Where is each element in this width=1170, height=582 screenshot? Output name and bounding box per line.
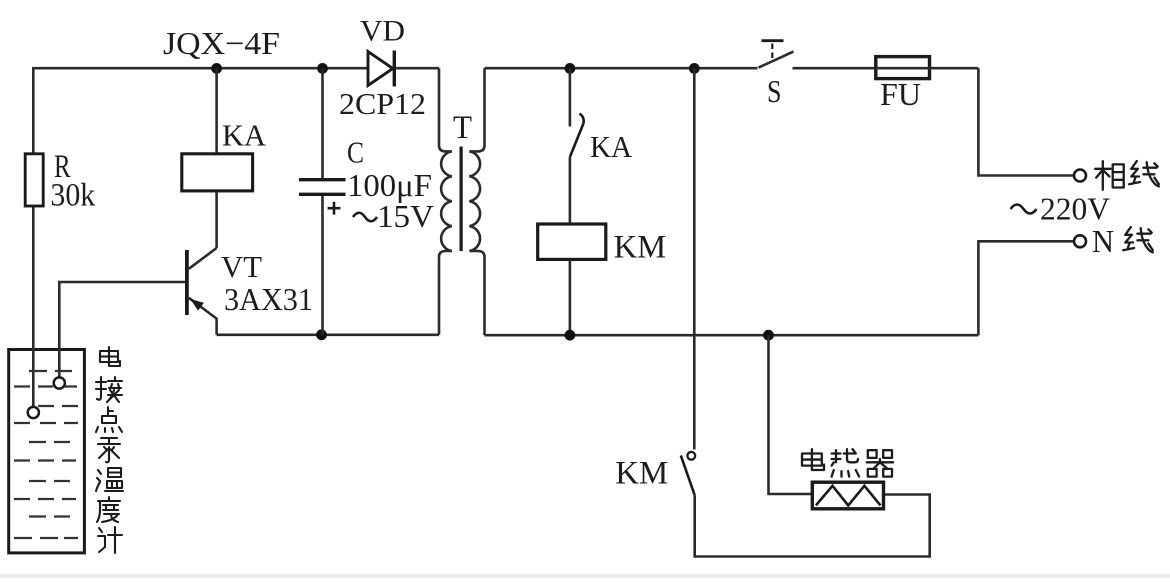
label ~220V (1011, 191, 1111, 227)
svg-text:220V: 220V (1040, 191, 1110, 227)
svg-text:VD: VD (360, 15, 405, 48)
junction dot KM switch branch top (689, 63, 700, 74)
label 相线 (1095, 161, 1159, 190)
svg-text:30k: 30k (50, 178, 95, 214)
contact KM (contactor main contact) (615, 68, 929, 556)
label N线 (1092, 223, 1153, 259)
switch S (759, 41, 877, 109)
label 电热器 (802, 449, 893, 477)
contact KA (relay contact) (570, 68, 633, 224)
contactor coil KM (538, 224, 666, 335)
resistor R 30k (25, 149, 95, 214)
terminal N线 (neutral) (1074, 235, 1086, 247)
svg-text:S: S (767, 73, 782, 109)
wire: base wire from thermometer electrode to transistor (59, 282, 185, 383)
transformer T (439, 68, 485, 335)
label 电接点汞温度计 (vertical) (96, 347, 123, 553)
label JQX-4F (163, 25, 280, 61)
junction dot at relay branch (211, 63, 222, 74)
wire: secondary top rail (485, 67, 758, 70)
wire: secondary bottom rail (485, 334, 979, 337)
svg-text:KM: KM (614, 230, 667, 266)
thermometer body (电接点汞温度计) (9, 350, 85, 553)
junction dot capacitor top (317, 63, 328, 74)
svg-text:KA: KA (590, 129, 633, 164)
svg-text:15V: 15V (377, 198, 434, 234)
thermometer internals: dashed liquid lines (14, 371, 78, 538)
electrode circle lower (left) (28, 407, 39, 418)
svg-text:VT: VT (221, 249, 262, 284)
svg-text:3AX31: 3AX31 (224, 281, 313, 317)
svg-text:KM: KM (615, 456, 668, 492)
junction dot capacitor bottom (316, 329, 327, 340)
relay coil KA (182, 118, 267, 191)
junction dot KM coil bottom (565, 330, 576, 341)
wire: N terminal to bottom rail (978, 241, 1074, 335)
svg-text:2CP12: 2CP12 (339, 86, 426, 121)
faint page artifact line at bottom (0, 574, 1170, 578)
wire: right drop to phase terminal (978, 68, 1074, 175)
svg-text:FU: FU (880, 76, 921, 112)
wire: top-left rail and left drop (33, 68, 439, 412)
heater 电热器 (812, 482, 883, 509)
svg-text:KA: KA (222, 118, 267, 153)
fuse FU (876, 57, 979, 112)
wire: KA coil branch (215, 68, 218, 248)
svg-text:JQX−4F: JQX−4F (163, 25, 280, 61)
svg-text:C: C (347, 134, 364, 169)
transistor VT 3AX31 (PNP) (185, 248, 313, 335)
wire: heater branch from rail (769, 335, 813, 494)
capacitor C 100uF ~15V (299, 68, 434, 335)
diode VD 2CP12 (339, 15, 426, 122)
terminal 相线 (phase) (1074, 170, 1086, 182)
junction dot heater branch (763, 330, 774, 341)
junction dot KA contact branch top (565, 63, 576, 74)
svg-text:N: N (1092, 223, 1114, 259)
svg-text:T: T (453, 110, 472, 146)
electrode circle upper (right) (54, 377, 65, 388)
wire: bottom rail (emitter side) (217, 333, 439, 336)
